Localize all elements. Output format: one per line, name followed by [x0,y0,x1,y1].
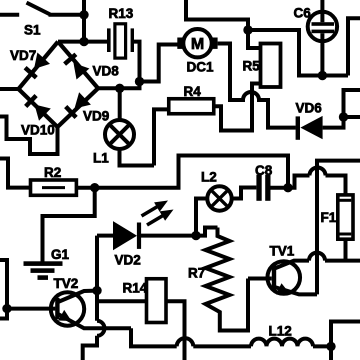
svg-text:VD7: VD7 [10,48,36,63]
wire staircase bridge bottom to left edge [0,117,58,155]
wire bridge left node to edge [0,87,19,91]
wire L2 right lead [232,188,257,199]
diode VD8 [65,54,90,79]
motor DC1 body [183,29,211,57]
diode VD10 [26,96,51,121]
wire hop over R14 drop [177,338,194,346]
wire R5 bottom lead to R4 [214,84,261,131]
diode bridge arm VD7 [19,42,59,89]
node R13/motor junction [135,77,144,86]
capacitor C6 plate top [312,22,335,26]
wire emitter bottom [131,328,177,346]
node L1 top [115,84,124,93]
wire junction down [329,346,333,360]
node TV2 base tap [2,304,11,313]
svg-text:R7: R7 [188,266,205,281]
ground G1 bar3 [38,275,49,280]
wire R14 left lead [97,299,147,303]
svg-text:VD9: VD9 [83,109,109,124]
LED VD2 arrow 1 [142,201,169,217]
node R2 right [90,183,99,192]
wire vertical from top edge [82,0,86,42]
wire R5 top lead [248,30,261,48]
svg-text:R13: R13 [109,6,134,21]
wire motor left lead [140,45,178,82]
capacitor C8 plate right [265,175,270,201]
switch S1 wire left [0,13,19,17]
transistor TV1 base bar [272,266,276,290]
svg-text:TV1: TV1 [270,244,295,259]
wire hop over emitter [97,321,105,336]
wire G1 branch [43,188,95,263]
wire junction up right [331,322,360,347]
capacitor C6 plate bottom [312,30,335,34]
transistor TV2 collector [58,291,97,302]
fuse F1 tick bottom [340,233,352,236]
lamp L1 cross [109,124,129,144]
wire R13 right lead down [134,42,140,82]
fuse F1 tick top [340,199,352,202]
fuse F1 body [338,195,353,239]
wire hop F1 [310,168,326,176]
svg-text:R5: R5 [243,59,261,74]
resistor R4 body [169,99,214,114]
transistor TV2 emitter [58,314,131,328]
svg-text:L12: L12 [269,324,292,339]
svg-text:C6: C6 [294,6,312,21]
wire bridge right node to R13 drop [98,82,140,89]
transistor TV2 body [51,292,84,325]
svg-text:L2: L2 [201,170,217,185]
wire LED to L2 node [141,234,196,238]
wire emitter chain up [317,161,360,295]
ground G1 bar1 [24,261,63,266]
node L2 bottom [191,231,200,240]
svg-text:L1: L1 [93,151,109,166]
wire F1 top lead right [326,176,346,195]
diode VD7 [25,53,50,78]
motor DC1 left bracket [177,38,183,49]
transistor TV2 base bar [55,298,59,319]
node L12 junction [326,342,335,351]
diode VD9 [66,92,91,117]
wire switch to vertical [49,13,85,17]
capacitor C6 lead top [320,0,324,22]
wire L1 bottom jog to R4 [120,149,155,166]
wire node to R7 [196,228,218,236]
wire R2 right lead [76,186,94,190]
switch S1 blade [27,3,51,15]
resistor R13 left plate [107,28,111,52]
wire top feed [186,0,248,30]
svg-text:S1: S1 [24,23,41,38]
svg-text:VD6: VD6 [296,101,323,116]
node VD6 branch [339,112,348,121]
wire branch right edge [344,115,360,119]
node TV2 collector [92,286,101,295]
resistor R14 body [147,279,167,323]
svg-text:VD10: VD10 [21,123,55,138]
lamp L1 body [105,120,134,149]
wire C8 right lead [271,186,289,190]
svg-text:F1: F1 [321,210,337,225]
resistor R7 zigzag [206,228,249,331]
capacitor C6 lead bottom [320,33,324,75]
ground G1 bar2 [31,268,55,273]
wire motor right lead to VD6 [218,44,296,128]
resistor R13 right plate [131,28,134,52]
wire C6 right loop [348,18,360,75]
wire TV1 base [248,277,272,281]
node C8 right [283,183,292,192]
svg-text:M: M [191,36,204,53]
capacitor C6 body [308,12,337,41]
wire hop collector [309,253,325,261]
svg-text:R4: R4 [184,84,202,99]
lamp L2 cross [211,190,228,207]
lamp L2 body [207,186,231,210]
wire TV2 feed left [0,260,7,319]
transistor TV1 emitter arrow [276,283,289,294]
transistor TV1 collector [275,261,310,269]
svg-text:VD8: VD8 [93,64,120,79]
node R5 top junction [243,25,252,34]
svg-text:R2: R2 [44,165,61,180]
diode bridge arm VD9 [58,88,99,127]
transistor TV1 body [267,261,300,294]
wire F1 bottom lead [344,239,348,260]
svg-text:TV2: TV2 [54,276,79,291]
LED VD2 triangle [113,221,137,250]
svg-text:R14: R14 [123,281,148,296]
wire R4 left lead [154,109,169,165]
wire collector right [325,259,360,263]
diode VD6 bar [296,116,300,139]
diode bridge arm VD10 [19,89,58,127]
resistor R2 inner tick [42,186,65,189]
wire TV2 base [7,307,55,311]
svg-text:DC1: DC1 [187,60,214,75]
node junction bus [79,37,88,46]
wire collector chain bottom [83,336,97,360]
wire R14 right lead [166,301,185,360]
capacitor C8 plate left [256,175,261,201]
lamp L1 top lead [118,88,122,120]
wire F1 top lead [288,176,310,188]
diode VD6 triangle [300,116,322,139]
wire collector to LED [97,234,113,238]
svg-text:C8: C8 [255,163,273,178]
inductor L12 [251,339,313,347]
node C6 bottom [318,71,327,80]
diode bridge arm VD8 [58,42,98,89]
wire collector chain vertical [95,236,99,321]
transistor TV2 emitter arrow [58,310,71,321]
wire bus to R13 [58,40,107,44]
LED VD2 arrow 2 [147,210,174,226]
resistor R5 body [261,44,281,88]
node junction S1 [79,10,88,19]
wire net 155 R2 to C8 junction [95,156,288,188]
resistor R2 body [31,180,77,195]
svg-text:VD2: VD2 [115,253,141,268]
wire R2 left lead [0,159,31,188]
wire to L12 [193,344,251,348]
wire VD6 right [323,90,360,128]
transistor TV1 emitter [275,287,318,294]
motor DC1 right bracket [212,38,218,49]
wire L12 to junction [313,344,331,348]
wire top feed to C6 [248,30,348,76]
wire L2 left lead [196,199,207,236]
resistor R13 body [115,24,126,58]
LED VD2 bar [137,223,141,249]
svg-text:G1: G1 [51,247,70,262]
